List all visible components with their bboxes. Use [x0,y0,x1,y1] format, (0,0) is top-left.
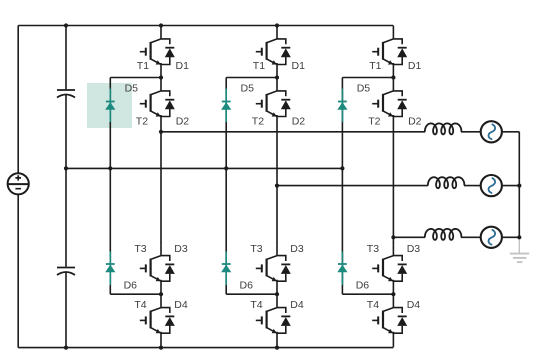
svg-text:D3: D3 [407,243,421,255]
svg-text:D2: D2 [408,116,422,128]
svg-text:D2: D2 [176,116,190,128]
svg-text:T1: T1 [369,60,381,72]
svg-text:T3: T3 [134,243,146,255]
svg-text:D6: D6 [124,280,138,292]
svg-text:D6: D6 [356,280,370,292]
svg-text:T3: T3 [367,243,379,255]
svg-text:T4: T4 [250,299,262,311]
svg-text:D4: D4 [407,299,421,311]
svg-text:D4: D4 [174,299,188,311]
svg-text:T1: T1 [137,60,149,72]
svg-text:T3: T3 [250,243,262,255]
svg-text:D5: D5 [357,83,371,95]
svg-text:D1: D1 [408,60,422,72]
svg-text:D3: D3 [290,243,304,255]
svg-text:T4: T4 [367,299,379,311]
svg-text:T1: T1 [253,60,265,72]
svg-text:D1: D1 [292,60,306,72]
svg-text:T2: T2 [368,116,380,128]
svg-text:T2: T2 [136,116,148,128]
svg-text:D3: D3 [174,243,188,255]
svg-text:D6: D6 [240,280,254,292]
svg-text:D5: D5 [125,83,139,95]
svg-text:D2: D2 [292,116,306,128]
svg-text:D1: D1 [176,60,190,72]
svg-text:T2: T2 [252,116,264,128]
svg-text:D5: D5 [241,83,255,95]
svg-text:D4: D4 [290,299,304,311]
svg-text:T4: T4 [134,299,146,311]
